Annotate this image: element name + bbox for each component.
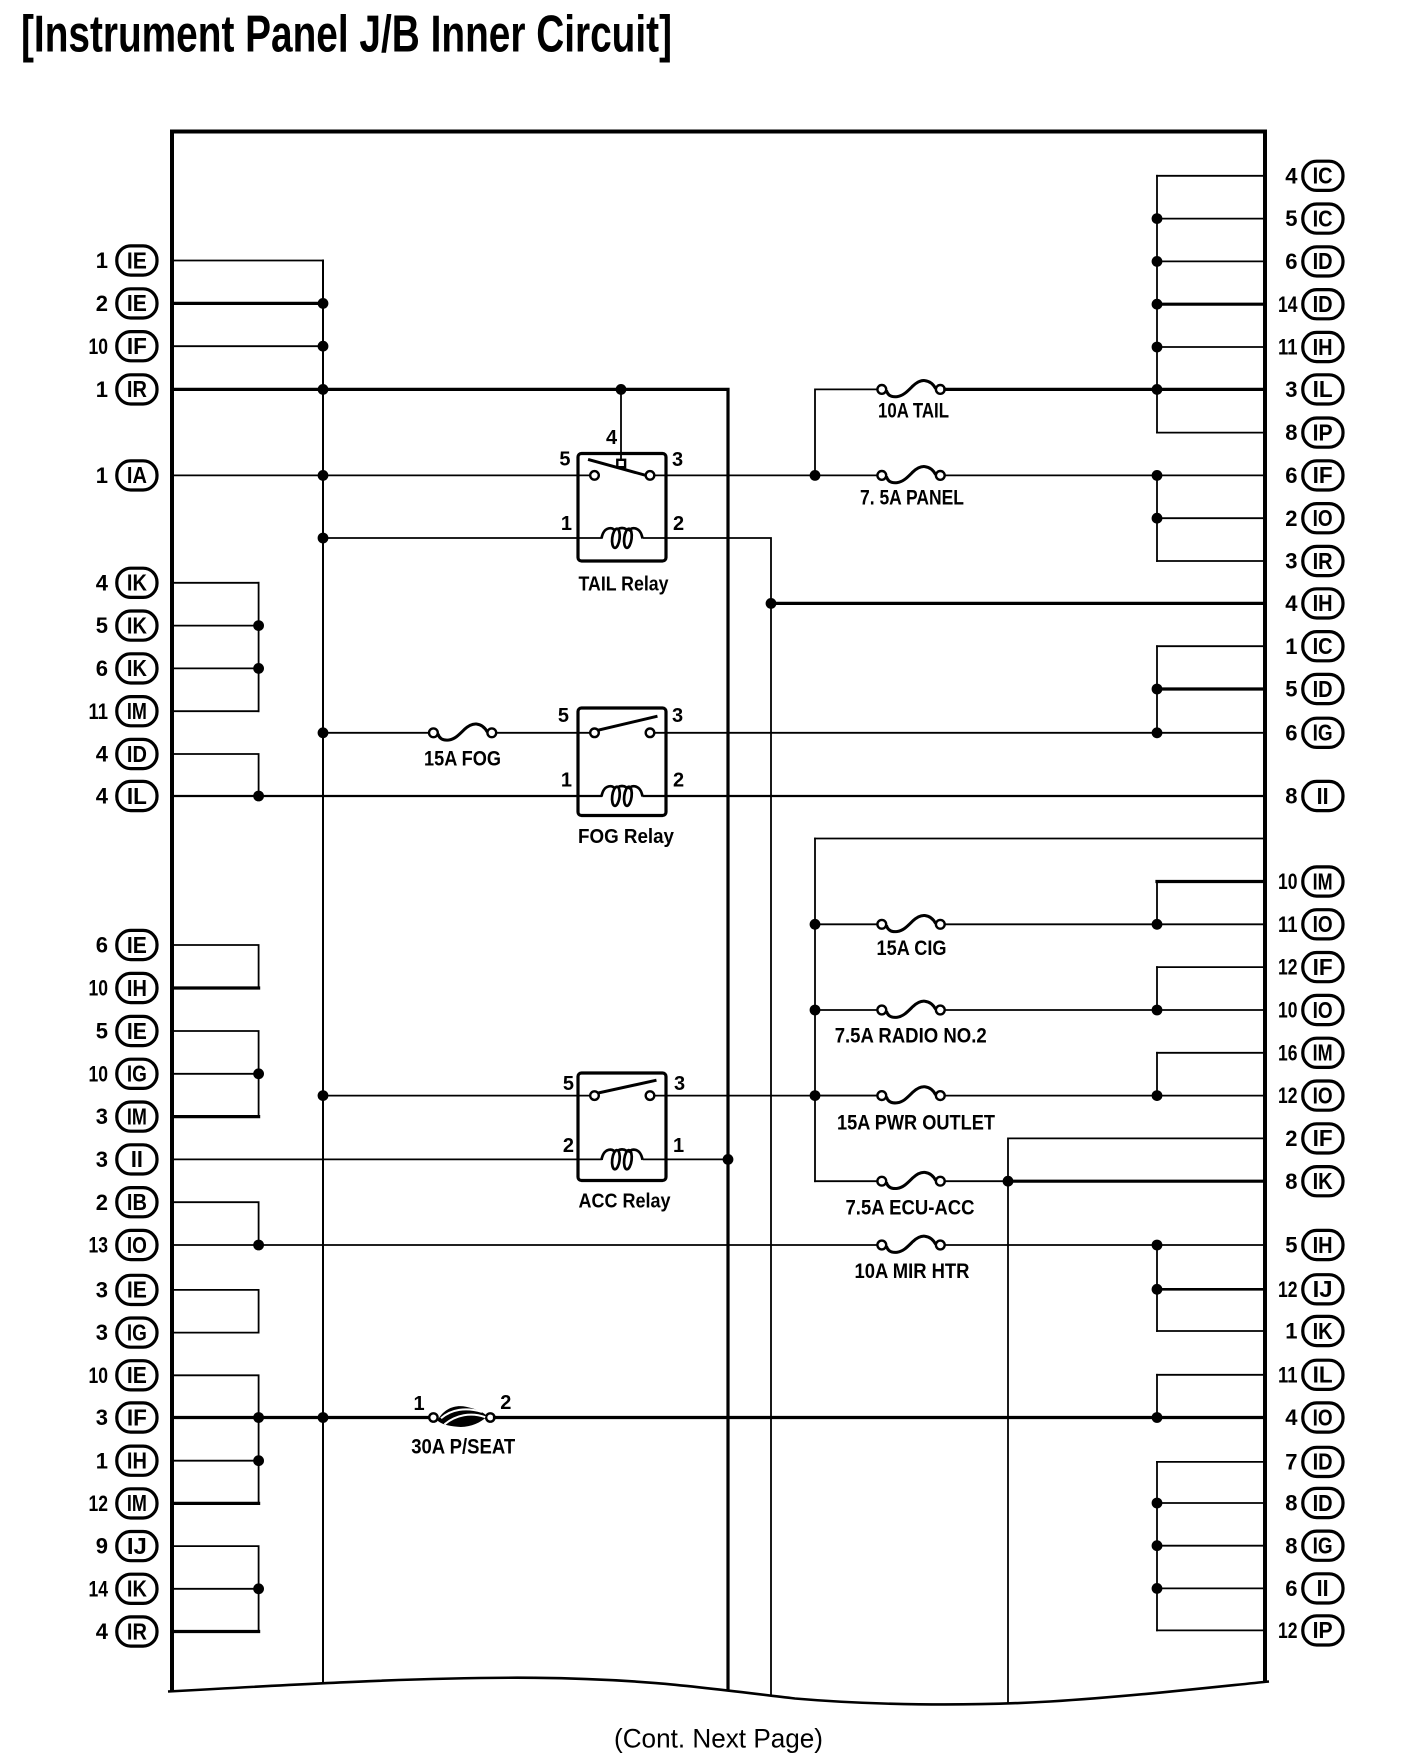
svg-text:[Instrument Panel J/B Inner Ci: [Instrument Panel J/B Inner Circuit]	[21, 6, 672, 64]
wire 3 IR stub	[1157, 560, 1265, 562]
wire 1 IH stub	[172, 1460, 259, 1462]
junction bracket-10IG	[253, 1068, 264, 1079]
junction 1157-6IF row	[1152, 470, 1163, 481]
svg-text:FOG Relay: FOG Relay	[578, 826, 675, 848]
node 4 IH (right connector)	[1285, 589, 1343, 618]
svg-text:IM: IM	[127, 1490, 147, 1516]
wire PWR OUTLET fuse to 12 IO	[945, 1095, 1265, 1097]
svg-text:IE: IE	[127, 290, 147, 316]
wire right bracket 6IF-3IR vertical	[1156, 475, 1158, 561]
svg-text:IB: IB	[127, 1189, 147, 1215]
svg-text:3: 3	[96, 1320, 108, 1345]
node 10 IE (left connector)	[89, 1361, 158, 1390]
svg-text:1: 1	[96, 463, 108, 488]
junction bracket-8ID	[1152, 1498, 1163, 1509]
node 6 II (right connector)	[1285, 1574, 1343, 1603]
svg-text:15A PWR OUTLET: 15A PWR OUTLET	[837, 1111, 995, 1134]
svg-text:7: 7	[1285, 1450, 1297, 1475]
wire 13 IO row to MIR HTR fuse	[172, 1244, 877, 1246]
svg-text:IL: IL	[127, 783, 147, 809]
ACC relay switch blade	[596, 1081, 655, 1094]
node 11 IM (left connector)	[89, 697, 158, 726]
wire right bracket 11IL-4IO	[1156, 1375, 1158, 1418]
svg-text:ID: ID	[127, 741, 147, 767]
junction bus323-1IR	[318, 384, 329, 395]
wire 4 ID stub + bracket to 4 IL	[172, 754, 259, 796]
node 2 IB (left connector)	[96, 1188, 157, 1217]
node 10 IM (right connector)	[1278, 867, 1343, 896]
svg-text:10: 10	[89, 1363, 109, 1388]
junction bracket-1IH	[253, 1455, 264, 1466]
wire 4 IR stub	[172, 1630, 259, 1633]
svg-text:IG: IG	[127, 1319, 147, 1345]
svg-text:10: 10	[89, 1061, 109, 1086]
wire ECU-ACC row to 8 IK	[1008, 1180, 1265, 1183]
fuse 15A CIG	[877, 920, 886, 929]
junction bracket-5ID	[1152, 684, 1163, 695]
svg-text:3: 3	[674, 1073, 685, 1095]
svg-text:2: 2	[96, 1190, 108, 1215]
wire 11 IH stub	[1157, 346, 1265, 348]
wire 4 IK stub	[172, 582, 259, 584]
wire 12 IJ stub	[1157, 1288, 1265, 1291]
svg-text:5: 5	[96, 1019, 108, 1044]
svg-text:IH: IH	[1313, 590, 1333, 616]
wire 1 IA row to TAIL pin 5	[172, 474, 590, 476]
wire 8 ID stub	[1157, 1502, 1265, 1504]
svg-text:IO: IO	[1313, 911, 1333, 937]
wire 10 IG stub	[172, 1073, 259, 1075]
wire TAIL coil row left	[323, 537, 601, 539]
TAIL relay contact pin 5	[590, 471, 599, 480]
svg-text:IM: IM	[1313, 1040, 1333, 1066]
svg-text:1: 1	[1285, 1319, 1297, 1344]
node 8 IK (right connector)	[1285, 1167, 1343, 1196]
junction bracket-14IK	[253, 1583, 264, 1594]
wire 8 IP stub	[1157, 432, 1265, 434]
svg-text:8: 8	[1285, 1169, 1297, 1194]
node 14 IK (left connector)	[89, 1574, 158, 1603]
svg-text:9: 9	[96, 1534, 108, 1559]
wire 14 IK stub	[172, 1588, 259, 1590]
node 5 IE (left connector)	[96, 1016, 157, 1045]
svg-text:II: II	[131, 1146, 143, 1172]
svg-text:6: 6	[96, 933, 108, 958]
svg-text:IP: IP	[1313, 419, 1333, 445]
node 8 ID (right connector)	[1285, 1488, 1343, 1517]
svg-text:IJ: IJ	[1313, 1276, 1333, 1302]
wire vertical bus x=323	[322, 261, 324, 1686]
node 1 IC (right connector)	[1285, 632, 1343, 661]
wire 9 IJ stub + bracket	[172, 1546, 259, 1631]
wire FOG pin 3 to 6 IG	[654, 732, 1265, 734]
wire TAIL coil row right, corner down x=771	[644, 538, 771, 1698]
wire 11 IL stub	[1157, 1374, 1265, 1376]
svg-text:IK: IK	[127, 570, 147, 596]
svg-text:IO: IO	[1313, 1404, 1333, 1430]
wire ACC coil to x728	[644, 1158, 728, 1160]
wire rail corner to ECU-ACC fuse	[815, 1180, 877, 1182]
svg-text:IC: IC	[1313, 163, 1333, 189]
svg-text:3: 3	[672, 705, 683, 727]
svg-text:3: 3	[672, 449, 683, 471]
svg-text:IC: IC	[1313, 205, 1333, 231]
svg-text:IM: IM	[127, 1103, 147, 1129]
svg-text:10A TAIL: 10A TAIL	[878, 399, 949, 422]
svg-text:ID: ID	[1313, 1490, 1333, 1516]
node 6 IG (right connector)	[1285, 718, 1343, 747]
wire 1 IK stub	[1157, 1330, 1265, 1332]
svg-text:2: 2	[563, 1135, 574, 1157]
svg-text:1: 1	[1285, 634, 1297, 659]
node 10 IG (left connector)	[89, 1059, 158, 1088]
node 10 IH (left connector)	[89, 973, 158, 1002]
wire 1 IR / TAIL pin4 feed row	[172, 389, 728, 1695]
junction bracket-8IG	[1152, 1540, 1163, 1551]
node 4 IR (left connector)	[96, 1617, 157, 1646]
junction 1157-4IO	[1152, 1412, 1163, 1423]
junction rail-PWR OUTLET	[810, 1090, 821, 1101]
junction 1157-10IO	[1152, 1005, 1163, 1016]
svg-text:TAIL Relay: TAIL Relay	[579, 574, 670, 596]
junction bus323-P/SEAT row	[318, 1412, 329, 1423]
junction bracket-6ID	[1152, 256, 1163, 267]
node 1 IK (right connector)	[1285, 1316, 1343, 1345]
svg-text:4: 4	[1285, 163, 1298, 188]
wire 11 IM stub	[172, 710, 259, 712]
svg-text:IH: IH	[1313, 334, 1333, 360]
node 12 IP (right connector)	[1278, 1616, 1343, 1645]
svg-text:IG: IG	[1313, 1533, 1333, 1559]
wire left bracket 4IK-11IM vertical	[258, 583, 260, 711]
svg-text:IR: IR	[1313, 548, 1333, 574]
TAIL relay contact pin 3	[646, 471, 655, 480]
wire 1 IC stub	[1157, 645, 1265, 647]
svg-text:IF: IF	[1313, 954, 1333, 980]
svg-text:2: 2	[673, 513, 684, 535]
svg-text:IK: IK	[127, 1576, 147, 1602]
relay FOG Relay box	[578, 708, 666, 816]
node 3 IF (left connector)	[96, 1403, 157, 1432]
svg-text:12: 12	[1278, 1277, 1298, 1302]
node 5 IC (right connector)	[1285, 204, 1343, 233]
fuse 7.5A ECU-ACC	[877, 1177, 886, 1186]
junction bracket-13IO	[253, 1240, 264, 1251]
node 12 IF (right connector)	[1278, 953, 1343, 982]
node 14 ID (right connector)	[1278, 290, 1343, 319]
wire 3 II row to ACC coil	[172, 1158, 601, 1160]
node 3 II (left connector)	[96, 1145, 157, 1174]
wire right bracket 10IM-11IO	[1156, 882, 1158, 925]
svg-text:5: 5	[559, 449, 570, 471]
wire right bracket 12IF-10IO	[1156, 967, 1158, 1010]
wire right bracket 4IC-8IP vertical	[1156, 176, 1158, 433]
node 8 II (right connector)	[1285, 781, 1343, 810]
svg-text:6: 6	[1285, 249, 1297, 274]
node 4 IK (left connector)	[96, 568, 157, 597]
wire 10 IH stub	[172, 986, 259, 989]
wire 14 ID stub	[1157, 303, 1265, 306]
junction bus323-2IE	[318, 298, 329, 309]
svg-text:13: 13	[89, 1233, 109, 1258]
svg-text:12: 12	[1278, 1083, 1298, 1108]
wire 12 IP stub	[1157, 1629, 1265, 1631]
junction 1157-3IL row	[1152, 384, 1163, 395]
svg-text:IO: IO	[1313, 505, 1333, 531]
coil FOG relay	[602, 786, 616, 796]
junction 1157-11IO	[1152, 919, 1163, 930]
wire ACC switch row from bus	[323, 1095, 590, 1097]
node 11 IL (right connector)	[1278, 1360, 1343, 1389]
svg-text:5: 5	[563, 1073, 574, 1095]
svg-text:ACC Relay: ACC Relay	[579, 1191, 672, 1213]
svg-text:ID: ID	[1313, 248, 1333, 274]
wire rail to 15A CIG	[815, 923, 877, 925]
junction bus323-1IA	[318, 470, 329, 481]
svg-text:IA: IA	[127, 462, 147, 488]
node 1 IH (left connector)	[96, 1446, 157, 1475]
wire x1008 down to bottom	[1007, 1181, 1009, 1706]
wire 5 IC stub	[1157, 218, 1265, 220]
svg-text:3: 3	[96, 1147, 108, 1172]
wire 3 IE stub + bracket	[172, 1290, 259, 1333]
svg-text:2: 2	[500, 1392, 511, 1414]
node 10 IO (right connector)	[1278, 995, 1343, 1024]
wire TAIL pin 3 to 7.5A PANEL fuse	[654, 474, 877, 476]
svg-text:2: 2	[1285, 1126, 1297, 1151]
node 3 IE (left connector)	[96, 1275, 157, 1304]
node 4 IC (right connector)	[1285, 161, 1343, 190]
junction bracket-11IH	[1152, 342, 1163, 353]
fuse 7.5A RADIO NO.2	[877, 1006, 886, 1015]
fuse 15A FOG	[429, 728, 438, 737]
node 2 IF (right connector)	[1285, 1124, 1343, 1153]
wire ACC pin 3 row to fuse bank	[654, 1095, 877, 1097]
TAIL relay switch blade	[590, 460, 652, 477]
node 6 IE (left connector)	[96, 930, 157, 959]
svg-text:5: 5	[96, 613, 108, 638]
svg-text:(Cont. Next Page): (Cont. Next Page)	[614, 1724, 823, 1754]
svg-text:15A CIG: 15A CIG	[877, 937, 947, 960]
wire 10 IF row stub	[172, 345, 323, 347]
svg-text:15A FOG: 15A FOG	[424, 748, 501, 771]
svg-text:IC: IC	[1313, 633, 1333, 659]
svg-text:6: 6	[96, 656, 108, 681]
svg-text:ID: ID	[1313, 1449, 1333, 1475]
junction 1157-5IH	[1152, 1240, 1163, 1251]
svg-text:10: 10	[1278, 998, 1298, 1023]
svg-text:3: 3	[96, 1104, 108, 1129]
node 3 IG (left connector)	[96, 1318, 157, 1347]
svg-text:IH: IH	[127, 1448, 147, 1474]
node 5 IH (right connector)	[1285, 1230, 1343, 1259]
svg-text:2: 2	[96, 291, 108, 316]
svg-text:ID: ID	[1313, 291, 1333, 317]
node 1 IR (left connector)	[96, 375, 157, 404]
wire right bracket 7ID-12IP vertical	[1156, 1462, 1158, 1631]
svg-text:4: 4	[96, 570, 109, 595]
wire 3 IG stub	[172, 1332, 259, 1334]
svg-text:1: 1	[96, 248, 108, 273]
svg-text:IE: IE	[127, 1362, 147, 1388]
svg-text:2: 2	[673, 770, 684, 792]
node 12 IJ (right connector)	[1278, 1275, 1343, 1304]
node 7 ID (right connector)	[1285, 1447, 1343, 1476]
junction x771-4IH row	[766, 598, 777, 609]
node 6 IK (left connector)	[96, 654, 157, 683]
junction rail-CIG	[810, 919, 821, 930]
svg-text:IF: IF	[127, 1404, 147, 1430]
wire 10 IE stub + bracket	[172, 1375, 259, 1503]
wire 6 II stub	[1157, 1587, 1265, 1589]
wire right bracket 1IC-6IG vertical	[1156, 646, 1158, 733]
node 5 IK (left connector)	[96, 611, 157, 640]
wire 3 IM stub	[172, 1115, 259, 1118]
svg-text:IE: IE	[127, 932, 147, 958]
svg-text:1: 1	[413, 1393, 424, 1415]
svg-text:II: II	[1317, 783, 1329, 809]
junction bracket-12IJ	[1152, 1284, 1163, 1295]
ACC relay contact pin 5	[590, 1091, 599, 1100]
coil ACC relay	[602, 1150, 616, 1160]
svg-text:3: 3	[1285, 549, 1297, 574]
wire FOG coil to 8 II	[644, 795, 1265, 797]
wire 10A TAIL feed from 1 IA row	[815, 389, 877, 475]
wire 5 IE stub + bracket	[172, 1031, 259, 1117]
svg-text:8: 8	[1285, 784, 1297, 809]
node 5 ID (right connector)	[1285, 674, 1343, 703]
node 10 IF (left connector)	[89, 332, 158, 361]
fuse 15A PWR OUTLET	[877, 1091, 886, 1100]
node 11 IO (right connector)	[1278, 910, 1343, 939]
junction 1IR row - TAIL pin 4	[616, 384, 627, 395]
wire MIR HTR fuse to 5 IH	[945, 1244, 1265, 1246]
svg-text:IG: IG	[1313, 720, 1333, 746]
wire 4 IH row	[771, 602, 1265, 605]
svg-text:ID: ID	[1313, 676, 1333, 702]
wire right bracket 16IM-12IO	[1156, 1053, 1158, 1096]
coil TAIL relay	[602, 528, 616, 538]
junction bus323-TAIL coil	[318, 533, 329, 544]
wire ECU-ACC fuse to x1008	[945, 1180, 1008, 1182]
svg-text:IO: IO	[1313, 1082, 1333, 1108]
node 6 ID (right connector)	[1285, 247, 1343, 276]
svg-text:IH: IH	[1313, 1232, 1333, 1258]
wire 15A FOG to FOG pin 5	[496, 732, 590, 734]
svg-text:IL: IL	[1313, 1362, 1333, 1388]
node 2 IE (left connector)	[96, 289, 157, 318]
svg-text:1: 1	[673, 1135, 684, 1157]
relay ACC Relay box	[578, 1073, 666, 1181]
svg-text:IR: IR	[127, 376, 147, 402]
svg-text:IK: IK	[127, 655, 147, 681]
svg-text:8: 8	[1285, 1491, 1297, 1516]
svg-text:5: 5	[558, 705, 569, 727]
node 2 IO (right connector)	[1285, 504, 1343, 533]
wire TAIL pin 4 lead	[620, 389, 622, 459]
node 1 IE (left connector)	[96, 246, 157, 275]
junction 258-4IL row	[253, 791, 264, 802]
svg-text:IK: IK	[127, 612, 147, 638]
svg-text:IE: IE	[127, 1018, 147, 1044]
svg-text:IO: IO	[127, 1232, 147, 1258]
wire 6 IK stub	[172, 667, 259, 669]
junction bracket-5IC	[1152, 213, 1163, 224]
node 12 IO (right connector)	[1278, 1081, 1343, 1110]
junction x728-ACC coil	[723, 1154, 734, 1165]
wire fuse bank top rail	[815, 838, 1265, 840]
node 8 IG (right connector)	[1285, 1531, 1343, 1560]
wire 2 IO stub	[1157, 517, 1265, 519]
svg-text:10: 10	[89, 976, 109, 1001]
wire 4 IL row to FOG coil	[172, 795, 601, 797]
junction 1157-12IO	[1152, 1090, 1163, 1101]
svg-text:IE: IE	[127, 1277, 147, 1303]
svg-text:6: 6	[1285, 720, 1297, 745]
FOG relay contact pin 5	[590, 729, 599, 738]
svg-text:12: 12	[89, 1491, 109, 1516]
node 3 IM (left connector)	[96, 1102, 157, 1131]
junction bracket-5IK	[253, 620, 264, 631]
wire 16 IM stub	[1157, 1052, 1265, 1054]
svg-text:12: 12	[1278, 955, 1298, 980]
svg-text:4: 4	[1285, 1405, 1298, 1430]
wire 2 IB stub + bracket to 13 IO	[172, 1202, 259, 1245]
svg-text:5: 5	[1285, 206, 1297, 231]
ACC relay contact pin 3	[646, 1091, 655, 1100]
node 9 IJ (left connector)	[96, 1532, 157, 1561]
svg-text:11: 11	[1278, 912, 1298, 937]
wire 10A TAIL to 3 IL	[945, 388, 1265, 391]
junction bracket-6II	[1152, 1583, 1163, 1594]
svg-text:10A MIR HTR: 10A MIR HTR	[855, 1260, 970, 1283]
svg-text:6: 6	[1285, 1576, 1297, 1601]
svg-text:4: 4	[96, 784, 109, 809]
junction bracket-3IF	[253, 1412, 264, 1423]
node 1 IA (left connector)	[96, 461, 157, 490]
node 13 IO (left connector)	[89, 1230, 158, 1259]
svg-text:3: 3	[96, 1278, 108, 1303]
svg-text:16: 16	[1278, 1040, 1298, 1065]
svg-text:3: 3	[1285, 377, 1297, 402]
wire RADIO fuse to 10 IO	[945, 1009, 1265, 1011]
FOG relay switch blade	[597, 717, 656, 731]
svg-text:1: 1	[96, 377, 108, 402]
svg-text:7. 5A PANEL: 7. 5A PANEL	[860, 486, 964, 509]
svg-text:IM: IM	[1313, 868, 1333, 894]
svg-text:1: 1	[96, 1448, 108, 1473]
fuse 10A TAIL	[877, 385, 886, 394]
node 4 IL (left connector)	[96, 781, 157, 810]
wire 12 IF stub	[1157, 966, 1265, 968]
svg-text:8: 8	[1285, 420, 1297, 445]
svg-text:14: 14	[89, 1576, 109, 1601]
svg-text:11: 11	[1278, 335, 1298, 360]
svg-text:1: 1	[561, 770, 572, 792]
svg-text:8: 8	[1285, 1533, 1297, 1558]
wire 12 IM stub	[172, 1502, 259, 1505]
svg-text:IR: IR	[127, 1618, 147, 1644]
junction 815-1IA row	[810, 470, 821, 481]
wire 5 ID stub	[1157, 687, 1265, 690]
node 8 IP (right connector)	[1285, 418, 1343, 447]
svg-text:14: 14	[1278, 292, 1298, 317]
fuse 7.5A PANEL	[877, 471, 886, 480]
junction x1008-ECU-ACC	[1003, 1176, 1014, 1187]
node 11 IH (right connector)	[1278, 332, 1343, 361]
node 4 ID (left connector)	[96, 739, 157, 768]
torn page bottom edge	[168, 1678, 1269, 1764]
